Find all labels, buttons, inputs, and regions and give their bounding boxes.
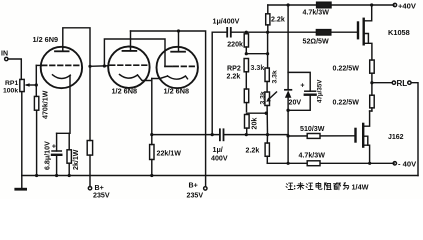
resistor 20k [245, 115, 259, 135]
svg-text:IN: IN [1, 51, 8, 58]
svg-text:22k/1W: 22k/1W [157, 150, 182, 158]
svg-text:0.22/5W: 0.22/5W [333, 65, 360, 73]
resistor 0.22/5W top [333, 60, 375, 83]
svg-text:RL: RL [397, 79, 408, 88]
link wire col A to col B (lower) [247, 112, 267, 114]
svg-text:510/3W: 510/3W [300, 125, 325, 133]
svg-text:2k/1W: 2k/1W [72, 149, 80, 170]
node A [88, 65, 91, 68]
capacitor 47u/35V [288, 79, 323, 111]
wire RP1 wiper to V1 grid [35, 65, 37, 85]
wire IN to RP1 [8, 59, 21, 79]
ground bus [22, 175, 418, 177]
terminal +40V [393, 2, 417, 11]
B+ plate line (top) [131, 31, 206, 187]
svg-text:235V: 235V [93, 192, 110, 200]
link wire between coupling caps [212, 32, 226, 134]
capacitor 6.8u/10V [44, 133, 62, 177]
resistor 2.2k top [266, 5, 285, 32]
MOSFET K1058 [358, 5, 410, 60]
resistor 220k [227, 32, 248, 54]
svg-text:47μ/35V: 47μ/35V [317, 79, 324, 103]
output node of cathode followers [150, 133, 153, 136]
resistor col A mid [244, 89, 248, 112]
svg-text:1/4W: 1/4W [352, 183, 369, 192]
V1 plate wire over the top [63, 28, 90, 67]
MOSFET J162 [356, 111, 404, 163]
注 [286, 183, 293, 189]
V3 plate wire [178, 31, 180, 52]
resistor 52ohm/5W [303, 30, 331, 46]
svg-text:RP1: RP1 [5, 80, 18, 87]
svg-text:1μ/: 1μ/ [213, 146, 223, 154]
都 [334, 183, 341, 190]
svg-text:+40V: +40V [398, 2, 417, 11]
terminal B+ 235V #1 [88, 184, 110, 200]
svg-text:1/2 6N8: 1/2 6N8 [112, 87, 138, 96]
tube V3 1/2 6N8 [157, 47, 198, 96]
svg-text:+: + [52, 144, 56, 151]
output node [370, 81, 373, 84]
input terminal IN [1, 51, 8, 61]
svg-text:3.3k: 3.3k [259, 91, 266, 104]
注 [306, 183, 313, 189]
resistor 2.2k bottom [246, 135, 270, 164]
wire RP1 bottom to ground bus [21, 92, 23, 176]
V1 cathode wire [57, 76, 70, 134]
potentiometer RP1 100k [3, 79, 36, 94]
svg-text:2.2k: 2.2k [271, 16, 285, 24]
svg-text:6.8μ/10V: 6.8μ/10V [44, 141, 52, 170]
wire line2 V1 plate to V3 grid [104, 39, 165, 66]
svg-text:2.2k: 2.2k [246, 147, 260, 155]
svg-text:RP2: RP2 [227, 65, 241, 73]
svg-text:3.3k: 3.3k [272, 70, 279, 83]
电 [316, 183, 322, 190]
svg-text:J162: J162 [388, 134, 404, 141]
RP2 wiper arrow [266, 92, 276, 102]
resistor 4.7k/3W bottom [299, 152, 326, 166]
svg-text:52Ω/5W: 52Ω/5W [303, 38, 329, 46]
resistor 0.22/5W bottom [333, 83, 375, 111]
svg-text:100k: 100k [3, 88, 18, 95]
svg-text:+: + [300, 83, 304, 90]
+40V rail [268, 4, 394, 6]
V2 plate wire [130, 31, 132, 51]
svg-text:4.7k/3W: 4.7k/3W [303, 9, 330, 17]
svg-text:3.3k: 3.3k [251, 64, 265, 72]
svg-text:4.7k/3W: 4.7k/3W [299, 152, 326, 160]
svg-text:400V: 400V [211, 155, 228, 163]
-40V line [267, 162, 394, 164]
gate line upper (to K1058) [232, 31, 358, 33]
potentiometer RP2 2.2k body [227, 59, 249, 90]
svg-text:2.2k: 2.2k [227, 73, 241, 81]
resistor 22k/1W [150, 145, 182, 178]
terminal B+ 235V #2 [187, 182, 208, 200]
svg-text:20k: 20k [251, 118, 259, 130]
colon [294, 186, 296, 189]
resistor 510/3W [300, 125, 325, 138]
RL return wire to ground bus [411, 83, 418, 176]
svg-text:K1058: K1058 [388, 28, 410, 37]
未 [297, 183, 304, 190]
coupling cap C1 1u/400V upper [213, 18, 240, 37]
svg-text:220k: 220k [227, 41, 243, 49]
V1 plate load resistor (to B+) [87, 66, 92, 186]
svg-text:1/2 6N9: 1/2 6N9 [33, 35, 59, 44]
cathode join wires V2 V3 [138, 75, 152, 81]
tube V1 1/2 6N9 [33, 35, 83, 88]
ground [16, 176, 26, 190]
svg-text:1/2 6N8: 1/2 6N8 [164, 87, 190, 96]
link col A to col B [245, 52, 248, 55]
zener rail col C [287, 5, 289, 90]
resistor 470k/1W [34, 85, 49, 177]
svg-text:1μ/400V: 1μ/400V [213, 18, 240, 26]
阻 [325, 183, 332, 190]
terminal RL [392, 79, 411, 88]
col B vertical with two 3.3k resistors [251, 32, 279, 134]
resistor 4.7k/3W top [303, 2, 332, 16]
coupling cap C2 1u/400V lower [211, 129, 288, 162]
svg-text:20V: 20V [289, 99, 302, 107]
branch to 47u cap [288, 72, 310, 91]
zener diode 20V [285, 90, 301, 164]
terminal -40V [393, 160, 417, 169]
为 [343, 183, 348, 190]
note: unmarked resistors are 1/4W (CJK drawn as vector strokes) [286, 183, 349, 190]
svg-text:B+: B+ [189, 182, 198, 190]
svg-text:- 40V: - 40V [398, 160, 417, 169]
gate line lower (to J162) [288, 135, 355, 137]
svg-text:470k/1W: 470k/1W [42, 90, 50, 119]
svg-text:0.22/5W: 0.22/5W [333, 99, 360, 107]
svg-text:235V: 235V [187, 192, 204, 200]
tube V2 1/2 6N8 [108, 46, 149, 95]
resistor 2k/1W [67, 133, 80, 177]
